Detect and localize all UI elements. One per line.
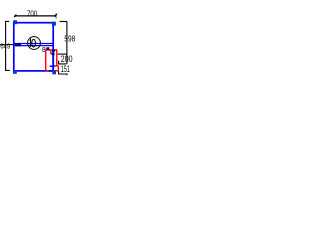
shelf line upper <box>14 43 52 45</box>
grip top-right <box>52 22 56 26</box>
dim 700 line <box>15 15 56 17</box>
svg-text:151: 151 <box>61 64 70 74</box>
svg-text:700: 700 <box>27 8 37 18</box>
grip top-left <box>13 20 17 24</box>
dim 598 bottom hook <box>58 53 67 55</box>
svg-text:200: 200 <box>61 54 73 64</box>
red bottom horizontal <box>46 70 59 72</box>
shelf line lower <box>14 45 52 47</box>
grip bottom-right <box>52 71 56 75</box>
blue bottom edge overdraw <box>49 70 55 72</box>
witness line to shelf <box>0 44 13 46</box>
svg-text:649: 649 <box>0 44 10 51</box>
balloon text 10 <box>30 39 36 47</box>
grip red top-left <box>46 47 49 50</box>
dim 151 leader <box>59 71 67 75</box>
dim 649 vertical line <box>5 21 7 70</box>
red inner vertical <box>50 50 52 54</box>
svg-text:598: 598 <box>64 33 75 43</box>
dim 649 bottom tick <box>5 69 10 71</box>
background <box>0 0 90 90</box>
dim 200 leader <box>59 61 67 64</box>
dim 700 right tick tail <box>55 16 57 19</box>
grip red inner <box>52 53 55 55</box>
dim 700 right tick <box>55 14 57 17</box>
blue right edge overdraw <box>52 51 54 71</box>
dim 700 left tick <box>14 15 16 17</box>
red top horizontal <box>45 49 57 51</box>
back panel profile (red) left vertical <box>45 50 47 71</box>
balloon circle outline <box>28 37 41 50</box>
red step horizontal <box>55 65 58 67</box>
shelf grip bar <box>15 43 21 46</box>
panel rectangle (blue outline) <box>14 23 53 71</box>
grip bottom-left <box>13 70 17 74</box>
red inner horizontal <box>51 53 53 55</box>
dim 598 vertical line <box>66 22 68 65</box>
red right vertical upper <box>56 50 58 66</box>
dim 649 top tick <box>5 20 9 22</box>
blue step segment <box>50 65 56 67</box>
dim 598 top hook <box>60 21 67 23</box>
balloon circle fill <box>28 37 41 50</box>
grip red top-mid <box>52 49 55 51</box>
red right vertical lower <box>57 66 59 71</box>
